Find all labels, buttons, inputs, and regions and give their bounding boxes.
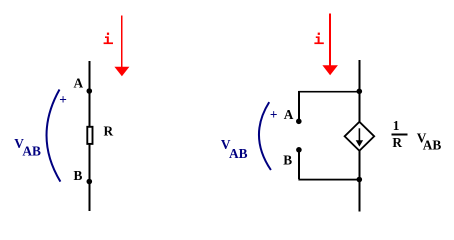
svg-text:B: B (283, 153, 292, 168)
svg-text:+: + (270, 107, 278, 122)
svg-text:1: 1 (393, 118, 400, 133)
svg-text:AB: AB (22, 144, 41, 159)
svg-text:AB: AB (423, 138, 442, 153)
svg-text:R: R (104, 124, 114, 139)
svg-text:R: R (392, 135, 402, 150)
svg-text:A: A (74, 76, 84, 91)
svg-text:+: + (59, 92, 67, 107)
svg-text:AB: AB (229, 146, 248, 161)
svg-text:B: B (74, 168, 83, 183)
svg-text:A: A (284, 107, 294, 122)
